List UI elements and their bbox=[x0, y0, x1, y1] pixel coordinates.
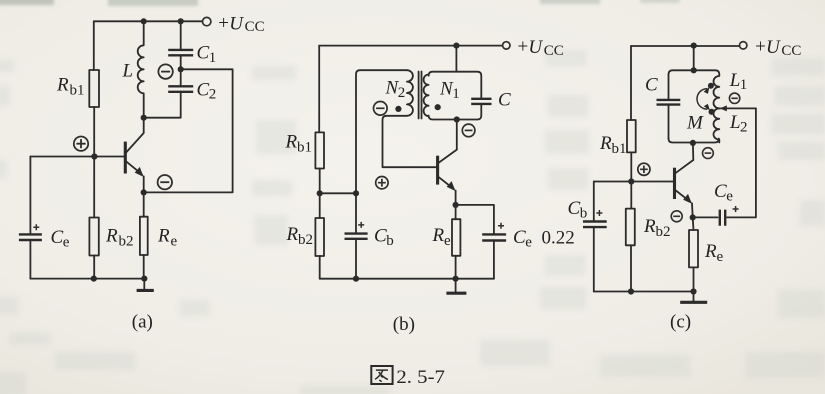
node: ground junction (b) bbox=[453, 276, 459, 282]
svg-text:CC: CC bbox=[245, 19, 265, 35]
resistor Rb2 (a) bbox=[89, 218, 98, 256]
capacitor Cb electrolytic (c) bbox=[583, 222, 607, 228]
node: Cb bottom junction (b) bbox=[353, 276, 359, 282]
node: collector junction at tank bottom (c) bbox=[690, 140, 696, 146]
terminal +Ucc (b) bbox=[503, 42, 510, 49]
wire: emitter to Ce (c) bbox=[693, 216, 718, 218]
svg-text:R: R bbox=[56, 75, 69, 96]
transformer core (b) bbox=[419, 72, 422, 119]
resistor Re (b) bbox=[452, 219, 460, 256]
svg-text:2: 2 bbox=[740, 120, 748, 136]
node: base junction (c) bbox=[628, 178, 634, 184]
svg-text:L: L bbox=[729, 70, 741, 91]
transistor Q2 base bar (b) bbox=[436, 156, 439, 185]
node: ground junction (c) bbox=[690, 288, 696, 294]
resistor Rb1 (a) bbox=[89, 70, 99, 107]
phase mark plus at base (b) bbox=[376, 177, 388, 189]
wire: Cb branch (b) bbox=[355, 193, 357, 278]
transistor Q1 emitter with arrow (a) bbox=[126, 161, 144, 192]
svg-text:b1: b1 bbox=[612, 141, 627, 157]
svg-text:U: U bbox=[528, 37, 543, 58]
node: C1-C2 junction (a) bbox=[178, 66, 184, 72]
node: emitter junction (b) bbox=[453, 202, 459, 208]
node: divider junction left (b) bbox=[317, 190, 323, 196]
svg-text:2: 2 bbox=[209, 87, 217, 103]
wire: Rb1 branch (b) bbox=[318, 46, 321, 194]
capacitor Ce electrolytic (b) bbox=[482, 234, 506, 240]
wire: C branch left (c) bbox=[668, 74, 670, 138]
wire: tank bottom edge (c) bbox=[669, 139, 719, 143]
wire: Cb branch (c) bbox=[593, 182, 595, 292]
node: tank bottom junction (a) bbox=[141, 115, 147, 121]
svg-text:1: 1 bbox=[740, 77, 748, 93]
wire: tank feed (c) bbox=[693, 46, 695, 71]
node: rail junction (b) bbox=[453, 43, 459, 49]
node: base junction (a) bbox=[91, 153, 97, 159]
transformer winding N2 (b) bbox=[407, 70, 413, 116]
resistor Rb1 (c) bbox=[627, 120, 636, 152]
svg-text:C: C bbox=[513, 227, 526, 248]
svg-text:R: R bbox=[157, 225, 170, 246]
svg-text:C: C bbox=[374, 225, 387, 246]
terminal +Ucc (a) bbox=[203, 17, 211, 25]
inductor L2 (c) bbox=[713, 108, 719, 142]
wire: Re branch (c) bbox=[692, 217, 695, 291]
ground (b) bbox=[455, 279, 457, 292]
ground (c) bbox=[693, 292, 695, 302]
phase mark plus at base (a) bbox=[74, 137, 88, 151]
svg-text:C: C bbox=[51, 227, 64, 248]
transistor Q2 emitter with arrow (b) bbox=[438, 177, 455, 205]
inductor L (a) bbox=[138, 21, 144, 117]
middle column bbox=[545, 50, 587, 66]
wire: right feedback down to Ce (c) bbox=[727, 108, 756, 217]
svg-text:R: R bbox=[643, 216, 656, 237]
svg-text:R: R bbox=[105, 225, 118, 246]
left margin bleed bbox=[0, 60, 14, 72]
svg-text:e: e bbox=[726, 189, 733, 205]
polarity plus of Cb (c) bbox=[596, 210, 602, 216]
svg-text:1: 1 bbox=[209, 50, 217, 66]
svg-text:e: e bbox=[171, 233, 178, 249]
svg-text:+: + bbox=[755, 37, 766, 58]
transistor Q1 base bar (a) bbox=[124, 142, 127, 174]
node: collector junction (b) bbox=[454, 116, 460, 122]
wire: N2 bottom to base (b) bbox=[383, 116, 437, 167]
capacitor C tank (b) bbox=[471, 99, 491, 104]
wire: Ce bottom to rail (b) bbox=[493, 241, 495, 279]
phase mark minus at emitter (c) bbox=[671, 211, 682, 222]
node: Rb2 bottom junction (c) bbox=[628, 288, 634, 294]
svg-text:2: 2 bbox=[398, 85, 406, 101]
transformer winding N1 (b) bbox=[424, 75, 429, 117]
capacitor C tank (c) bbox=[657, 100, 681, 105]
svg-text:b1: b1 bbox=[70, 83, 85, 99]
top edge smudges bbox=[0, 0, 54, 5]
wire: tap line to right (c) bbox=[719, 107, 756, 109]
terminal +Ucc (c) bbox=[740, 42, 747, 49]
svg-text:C: C bbox=[645, 75, 658, 96]
svg-text:(b): (b) bbox=[393, 314, 415, 335]
node: C1 top junction (a) bbox=[178, 18, 184, 24]
wire: feedback from C1-C2 junction to emitter (a) bbox=[146, 69, 232, 192]
wire: top supply rail (a) bbox=[94, 20, 203, 22]
svg-text:R: R bbox=[599, 133, 612, 154]
wire: Re branch (a) bbox=[143, 192, 145, 278]
svg-text:C: C bbox=[568, 198, 581, 219]
capacitor C2 (a) bbox=[168, 86, 193, 92]
wire: base to Ce branch (a) bbox=[29, 157, 31, 235]
right margin bbox=[772, 58, 825, 76]
wire: N2 left side up (b) bbox=[356, 70, 407, 193]
resistor Rb2 (b) bbox=[315, 218, 324, 256]
transistor Q1 collector (a) bbox=[126, 118, 144, 153]
transistor Q3 emitter with arrow (c) bbox=[675, 190, 693, 217]
svg-text:C: C bbox=[714, 181, 727, 202]
svg-text:2. 5-7: 2. 5-7 bbox=[396, 367, 445, 388]
node: tank feed junction on rail (c) bbox=[691, 43, 697, 49]
capacitor Ce electrolytic (a) bbox=[19, 234, 42, 240]
phase mark minus at emitter (a) bbox=[158, 175, 172, 189]
node: emitter junction (a) bbox=[141, 189, 147, 195]
wire: C1-C2 link (a) bbox=[180, 55, 182, 86]
svg-text:(a): (a) bbox=[132, 312, 153, 333]
svg-text:R: R bbox=[285, 132, 298, 153]
phase mark minus below tank (c) bbox=[703, 148, 714, 159]
wire: tank bottom edge (b) bbox=[429, 104, 482, 120]
wire: bottom rail (c) bbox=[594, 291, 694, 293]
wire: divider junction link (b) bbox=[320, 192, 356, 194]
wire: Rb2 branch (b) bbox=[319, 193, 321, 278]
svg-text:R: R bbox=[704, 241, 717, 262]
wire: top supply rail (c) bbox=[631, 45, 740, 47]
wire: bottom rail (b) bbox=[320, 278, 494, 280]
svg-text:+: + bbox=[518, 37, 529, 58]
svg-text:C: C bbox=[498, 89, 511, 110]
node: Rb2 bottom junction (a) bbox=[91, 276, 97, 282]
node: divider junction right (b) bbox=[353, 190, 359, 196]
node: ground junction (a) bbox=[141, 276, 147, 282]
between a and b bbox=[252, 66, 296, 80]
capacitor Cb electrolytic (b) bbox=[345, 234, 368, 239]
svg-text:CC: CC bbox=[781, 43, 801, 59]
svg-text:C: C bbox=[197, 79, 210, 100]
wire: base line (a) bbox=[30, 156, 124, 158]
svg-text:U: U bbox=[229, 13, 244, 34]
phasing dot N1 (b) bbox=[435, 104, 441, 110]
wire: Ce bottom to rail (a) bbox=[29, 240, 31, 279]
polarity plus of Ce (a) bbox=[33, 224, 39, 230]
wire: bottom rail (a) bbox=[30, 278, 144, 280]
svg-text:b: b bbox=[580, 205, 588, 221]
svg-text:e: e bbox=[525, 234, 532, 250]
wire: C1 top stub (a) bbox=[180, 21, 182, 50]
transistor Q3 collector slant (c) bbox=[675, 160, 693, 173]
resistor Re (c) bbox=[689, 230, 698, 267]
node: tank top junction (c) bbox=[691, 67, 697, 73]
resistor Re (a) bbox=[140, 217, 148, 255]
svg-text:CC: CC bbox=[544, 43, 564, 59]
phase mark minus at tank (a) bbox=[158, 64, 172, 78]
resistor Rb2 (c) bbox=[626, 209, 635, 246]
wire: top supply rail (b) bbox=[319, 45, 503, 47]
svg-text:b2: b2 bbox=[656, 224, 671, 240]
svg-text:+: + bbox=[218, 13, 229, 34]
svg-text:b: b bbox=[386, 233, 394, 249]
svg-text:b1: b1 bbox=[297, 140, 312, 156]
wire: base line (c) bbox=[594, 181, 674, 183]
svg-text:R: R bbox=[286, 224, 299, 245]
phase mark minus at tap (c) bbox=[729, 93, 739, 103]
wire: C2 bottom to tank bottom (a) bbox=[144, 92, 181, 118]
below a bbox=[55, 352, 135, 370]
capacitor Ce (c) bbox=[720, 210, 725, 226]
svg-text:R: R bbox=[432, 225, 445, 246]
polarity plus of Cb (b) bbox=[358, 222, 364, 228]
wire: Re branch (b) bbox=[455, 205, 457, 279]
polarity plus of Ce (b) bbox=[498, 223, 504, 229]
wire: tank feed from rail (b) bbox=[455, 46, 457, 72]
capacitor C1 (a) bbox=[168, 50, 193, 55]
wire: Rb2 branch (a) bbox=[93, 157, 95, 279]
phase mark minus at N2 (b) bbox=[374, 102, 388, 116]
wire: Rb1 branch (c) bbox=[630, 46, 632, 182]
polarity plus of Ce (c) bbox=[733, 206, 739, 212]
svg-text:M: M bbox=[686, 112, 704, 133]
caption character tu (drawn) bbox=[371, 366, 392, 384]
ground (a) bbox=[143, 279, 145, 289]
wire: Rb1 bottom to base node (a) bbox=[93, 107, 95, 157]
svg-text:e: e bbox=[717, 249, 724, 265]
mutual coupling M arc with dots (c) bbox=[708, 83, 714, 89]
svg-text:U: U bbox=[766, 37, 781, 58]
wire: Rb1 top branch (a) bbox=[93, 21, 95, 70]
phase mark plus at base (c) bbox=[638, 163, 650, 175]
wire: Rb2 branch (c) bbox=[630, 182, 632, 292]
svg-text:1: 1 bbox=[452, 86, 460, 102]
wire: tank top edge (c) bbox=[669, 70, 720, 74]
phasing dot N2 (b) bbox=[395, 106, 401, 112]
transistor Q2 collector slant (b) bbox=[438, 150, 457, 163]
svg-text:(c): (c) bbox=[670, 312, 691, 333]
node: L top junction (a) bbox=[141, 18, 147, 24]
svg-text:L: L bbox=[122, 61, 134, 82]
resistor Rb1 (b) bbox=[315, 132, 324, 168]
svg-text:L: L bbox=[729, 112, 741, 133]
phase mark minus at collector (b) bbox=[462, 124, 475, 137]
wire: emitter to Ce branch (b) bbox=[456, 205, 494, 235]
svg-text:b2: b2 bbox=[119, 233, 134, 249]
svg-text:e: e bbox=[63, 234, 70, 250]
wire: tank top edge (b) bbox=[429, 72, 482, 99]
svg-text:0.22: 0.22 bbox=[542, 228, 575, 249]
transistor Q3 base bar (c) bbox=[673, 168, 676, 199]
inductor L1 (c) bbox=[714, 74, 720, 108]
svg-text:C: C bbox=[197, 43, 210, 64]
wire: collector stub (b) bbox=[456, 120, 458, 150]
node: emitter junction (c) bbox=[690, 214, 696, 220]
svg-text:e: e bbox=[444, 233, 451, 249]
svg-text:b2: b2 bbox=[298, 232, 313, 248]
wire: collector stub (c) bbox=[692, 143, 694, 160]
